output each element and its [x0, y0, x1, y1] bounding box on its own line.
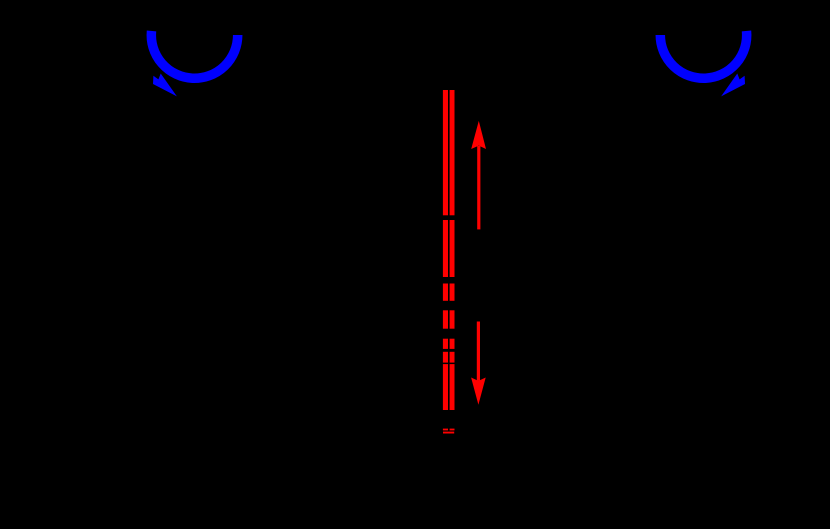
red double dashed line: right bar segment B: [450, 220, 455, 277]
left rotation arrow arc (counterclockwise, blue): [151, 31, 237, 78]
red bottom horizontal bar: [443, 432, 454, 434]
red double dashed line: left bar segment B: [443, 220, 448, 277]
red double dashed line: left bar segment E: [443, 339, 448, 349]
red double dashed line: left bar segment F: [443, 352, 448, 363]
red up arrow shaft: [477, 146, 480, 229]
red double dashed line: right bar segment E: [450, 339, 455, 349]
red down arrowhead: [471, 378, 486, 405]
red down arrow shaft: [477, 322, 480, 381]
red double dashed line: left bar segment A: [443, 90, 448, 215]
red double dashed line: right bar segment F: [450, 352, 455, 363]
red double dashed line: left bar bottom tick: [443, 429, 448, 431]
red up arrowhead: [471, 121, 486, 149]
red double dashed line: right bar segment A: [450, 90, 455, 215]
red double dashed line: right bar bottom tick: [450, 429, 455, 431]
red double dashed line: left bar segment G: [443, 364, 448, 410]
right rotation arrowhead: [721, 74, 745, 97]
red double dashed line: left bar segment C: [443, 284, 448, 301]
red double dashed line: right bar segment G: [450, 364, 455, 410]
right rotation arrow arc (clockwise, blue): [660, 31, 746, 78]
red double dashed line: right bar segment D: [450, 310, 455, 328]
left rotation arrowhead: [153, 74, 177, 97]
red double dashed line: left bar segment D: [443, 310, 448, 328]
red double dashed line: right bar segment C: [450, 284, 455, 301]
